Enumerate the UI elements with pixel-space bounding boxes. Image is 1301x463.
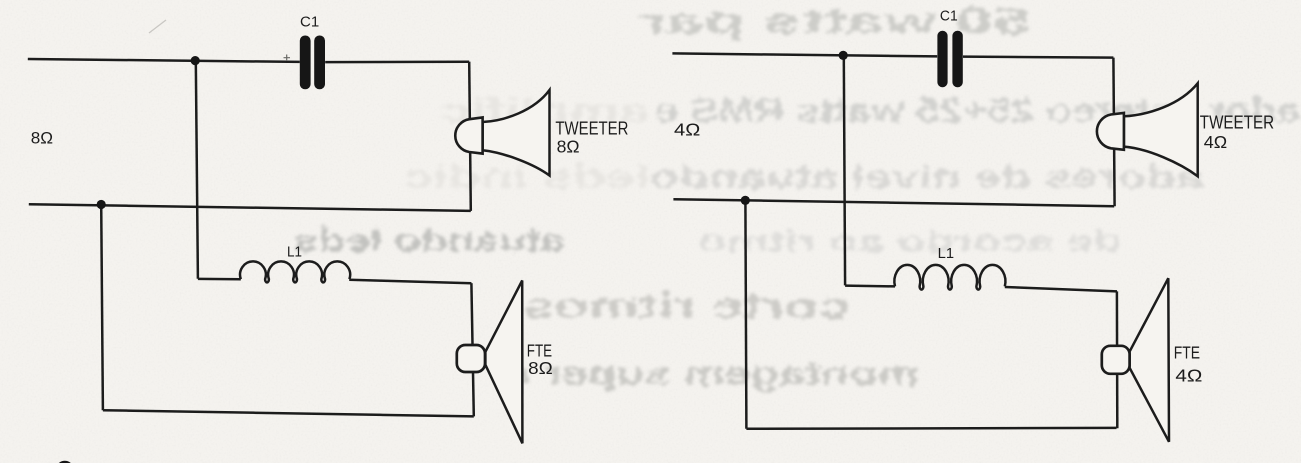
bleed-through text from reverse page (mirrored, faint)	[294, 0, 1300, 393]
wire: top input line left of C1	[28, 59, 300, 62]
inductor L1	[240, 261, 350, 282]
capacitor C1 (left) plates	[300, 36, 325, 90]
svg-text:4Ω: 4Ω	[1204, 132, 1227, 152]
bullet from caption below (cropped)	[57, 461, 73, 463]
FTE woofer (right): driver square	[1102, 346, 1130, 374]
tweeter (left): horn	[483, 90, 550, 176]
wire: bottom input line (tweeter return)	[29, 204, 471, 211]
svg-text:8Ω: 8Ω	[528, 358, 553, 378]
FTE woofer (left): driver square	[457, 345, 485, 372]
wire: L1 lead-in	[198, 278, 241, 281]
polarity + mark	[284, 55, 291, 62]
wire: bottom loop line	[103, 410, 474, 416]
svg-text:adores de nivel atuando: adores de nivel atuando	[650, 158, 1203, 195]
wire: lower-left vertical (FTE return)	[101, 204, 103, 410]
tweeter (right): horn	[1124, 83, 1198, 176]
tweeter (right): driver D-dome	[1097, 113, 1124, 150]
svg-text:L1: L1	[938, 246, 954, 262]
wire: top line C1 to tweeter corner	[325, 60, 469, 63]
node: bottom junction dot (right)	[741, 196, 750, 205]
svg-text:atuando leds: atuando leds	[294, 222, 565, 258]
svg-text:8Ω: 8Ω	[557, 137, 580, 157]
svg-text:TWEETER: TWEETER	[555, 119, 628, 139]
wire: bottom loop line (right)	[746, 427, 1116, 430]
svg-text:de acordo ao ritmo: de acordo ao ritmo	[698, 225, 1122, 258]
node: top junction dot (right)	[839, 51, 848, 60]
node: top junction dot	[191, 56, 200, 65]
svg-text:montagem super e: montagem super e	[505, 355, 919, 393]
svg-text:50 watts par: 50 watts par	[640, 0, 1030, 41]
inductor L1 (right)	[894, 265, 1005, 290]
FTE woofer (left): cone	[485, 281, 522, 444]
FTE woofer (right): cone	[1130, 278, 1169, 442]
svg-text:corte ritmos: corte ritmos	[523, 285, 850, 326]
svg-text:TWEETER: TWEETER	[1200, 112, 1274, 132]
wire: tweeter right vertical (right)	[1113, 58, 1114, 207]
svg-text:C1: C1	[300, 14, 319, 30]
wire: L1 to FTE (right)	[1005, 287, 1117, 291]
svg-text:8Ω: 8Ω	[31, 129, 53, 148]
wire: lower-left vertical (FTE return, right)	[745, 200, 746, 428]
wire: bottom input line (tweeter return, right)	[673, 199, 1114, 206]
wire: FTE right vertical (right)	[1116, 291, 1119, 428]
svg-text:4Ω: 4Ω	[1175, 366, 1202, 386]
faint scratch mark	[149, 20, 166, 33]
wire: L1 lead-in (right)	[845, 284, 895, 287]
svg-text:4Ω: 4Ω	[674, 119, 700, 139]
wire: top line C1 to tweeter corner (right)	[963, 57, 1113, 58]
wire: tweeter right vertical	[469, 62, 471, 211]
wire: FTE right vertical	[471, 283, 473, 416]
svg-text:C1: C1	[940, 8, 958, 24]
node: bottom junction dot	[97, 200, 106, 209]
wire: top input line left of C1 (right)	[672, 53, 937, 56]
svg-text:FTE: FTE	[1174, 343, 1200, 363]
svg-text:L1: L1	[287, 245, 302, 261]
wire: vertical from top junction down to L1 (right)	[844, 55, 845, 285]
wire: vertical from top junction down to L1	[196, 60, 198, 278]
tweeter (left): driver D-dome	[455, 117, 482, 153]
wire: L1 to FTE	[349, 280, 471, 283]
capacitor C1 (right) plates	[937, 31, 962, 87]
